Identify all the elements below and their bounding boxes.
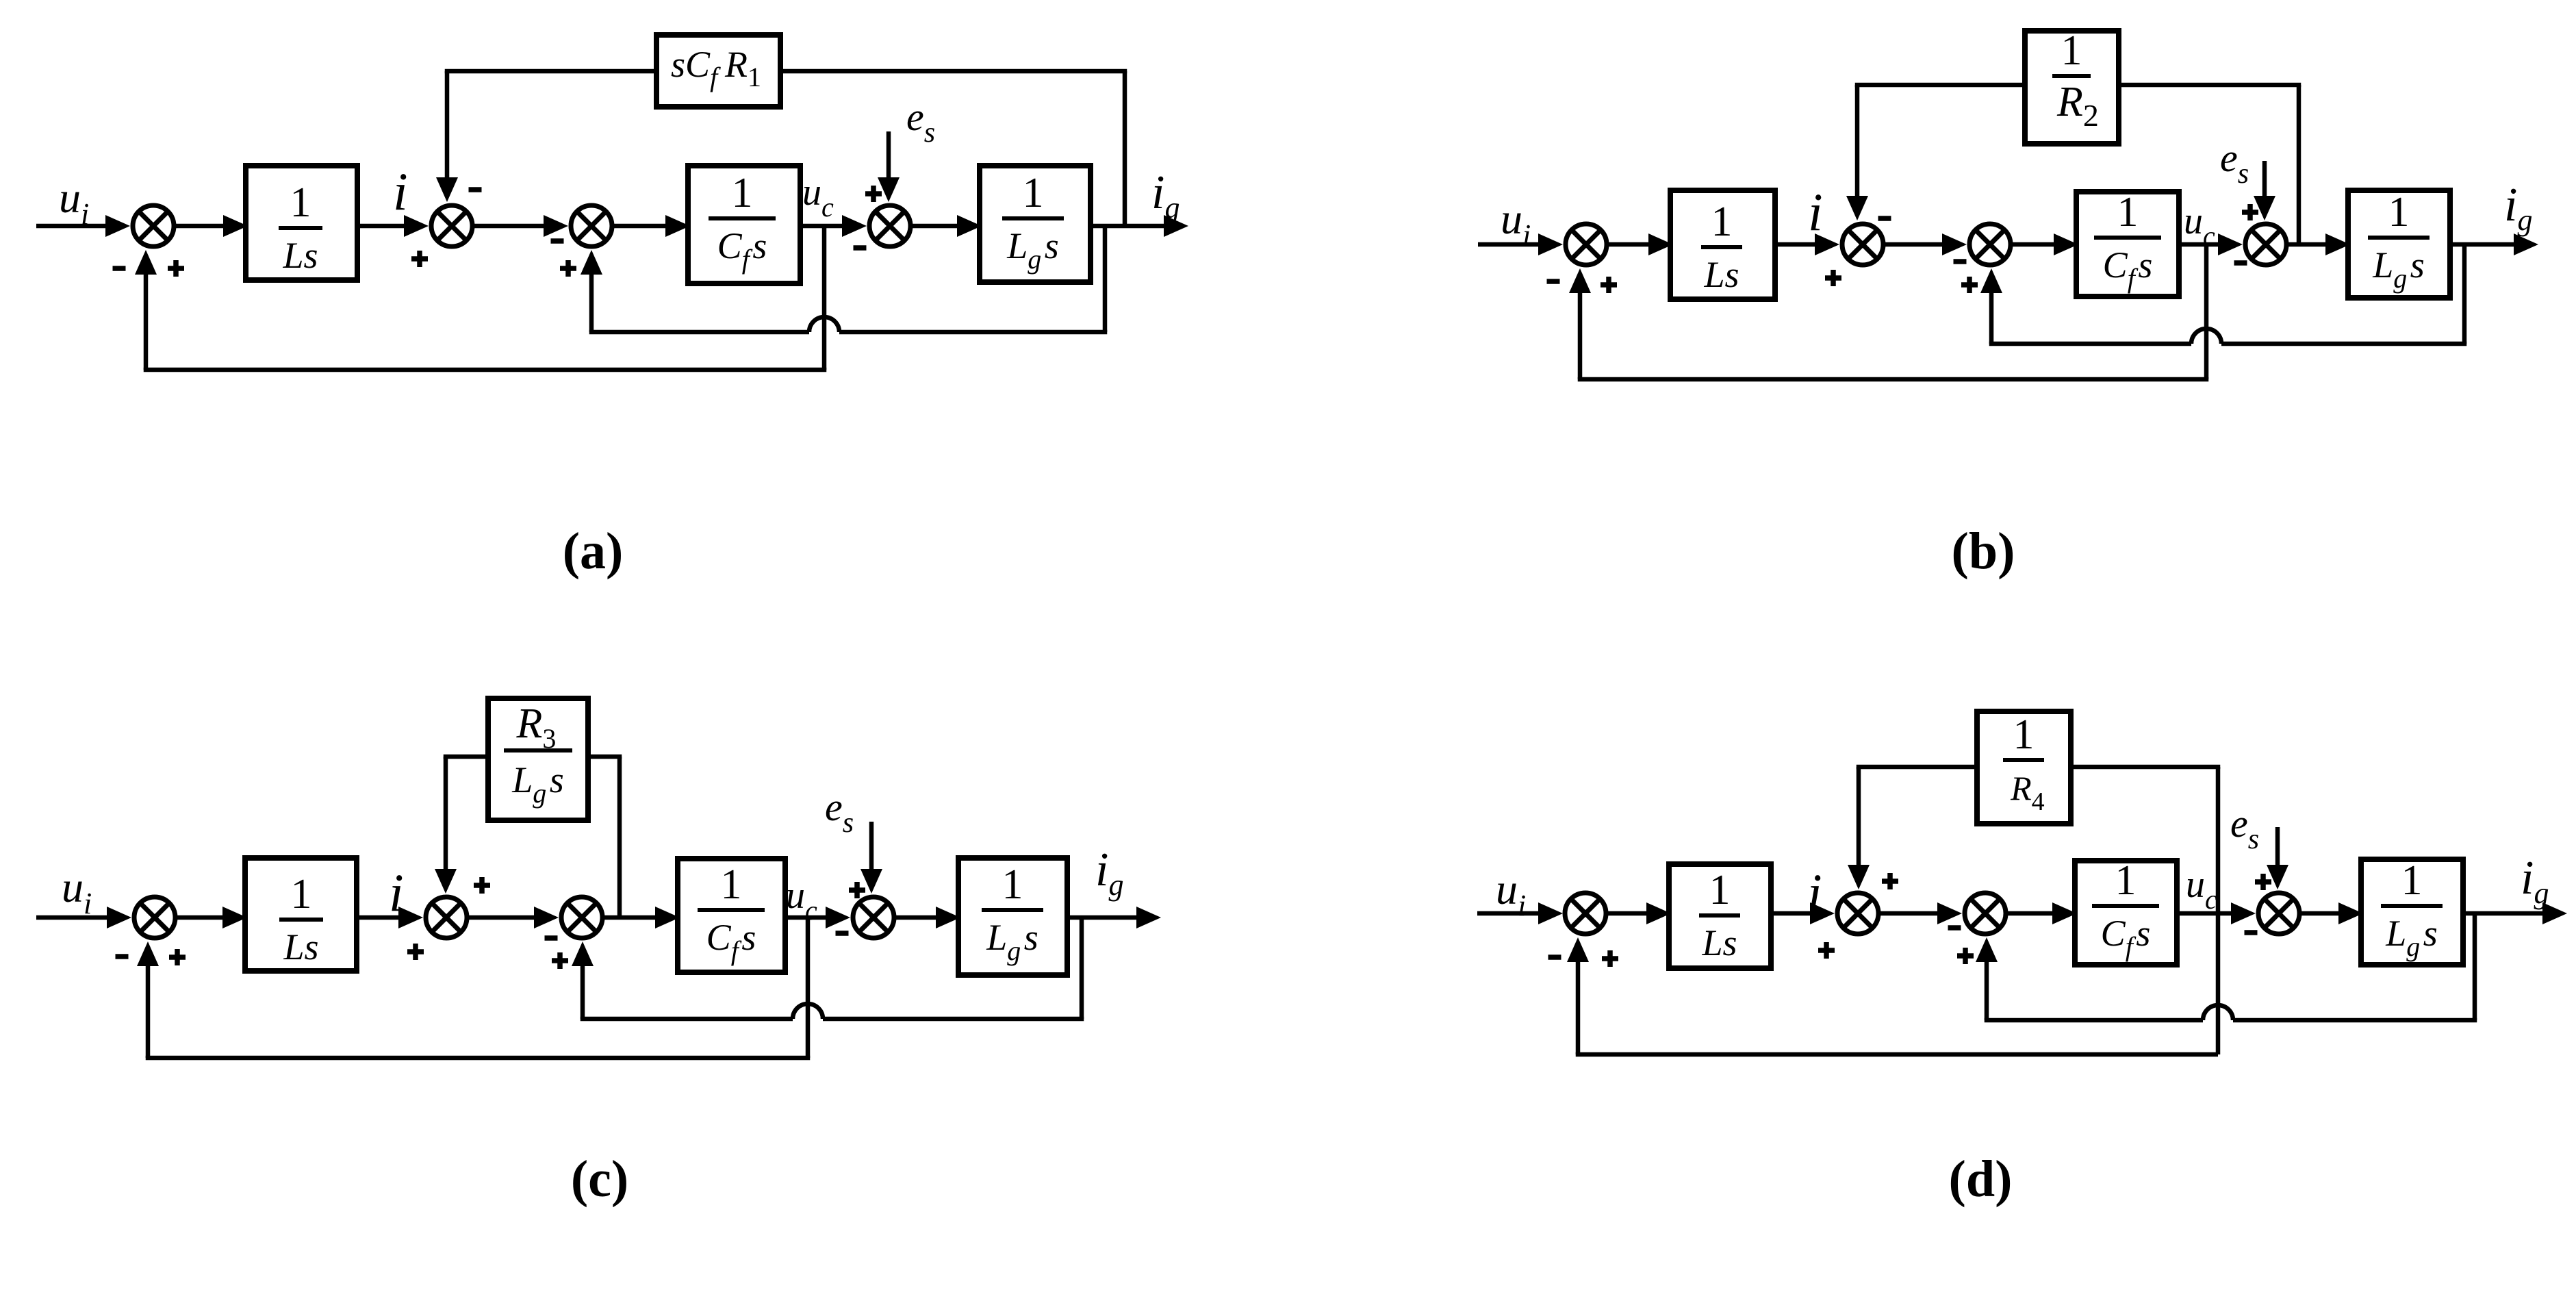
- wire: input line into summing junction S1d: [1477, 911, 1542, 916]
- sign + at S1c lower-right: [169, 949, 186, 965]
- wire: S1c to block 1/Ls: [175, 915, 227, 920]
- wire: S1d to block 1/Ls: [1606, 911, 1650, 916]
- svg-text:i: i: [1808, 182, 1823, 242]
- sign - at S3a left: [551, 238, 564, 244]
- svg-text:Ls: Ls: [282, 235, 318, 276]
- wire: S2c to summing junction S3c: [467, 915, 538, 920]
- summing junction S3b: [1969, 224, 2011, 265]
- wire: R3/Lgs block down into S2c with arrow: [444, 755, 488, 759]
- wire: outer feedback rise into S1d: [1576, 958, 1581, 1054]
- svg-text:1: 1: [1709, 867, 1731, 913]
- summing junction S4c: [853, 897, 894, 938]
- summing junction S3c: [561, 897, 602, 938]
- wire: S1b to block 1/Ls: [1607, 242, 1653, 247]
- svg-text:(d): (d): [1949, 1150, 2013, 1208]
- sign + at S3a lower-left: [560, 260, 576, 277]
- wire: block 1/Cfs to summing junction S4a: [800, 224, 846, 229]
- wire: inner feedback rise into S3c: [581, 962, 585, 1019]
- summing junction S4d: [2258, 893, 2299, 934]
- svg-text:Ls: Ls: [283, 926, 318, 967]
- block 1/Cfs (d) value label: [2092, 857, 2159, 962]
- block R3/Lgs (c) value label: [504, 700, 572, 809]
- svg-text:1: 1: [721, 861, 742, 908]
- wire: outer feedback rise into S1b: [1578, 289, 1583, 379]
- svg-text:i: i: [393, 162, 408, 221]
- svg-text:Ls: Ls: [1703, 254, 1739, 295]
- sign + at S4b upper-left: [2242, 204, 2258, 220]
- wire: u_c tap drop for outer loop (a): [822, 226, 827, 370]
- sign - at S3d left: [1948, 925, 1961, 931]
- wire: inner feedback horizontal with hop over u_c tap (c): [581, 1017, 793, 1022]
- svg-text:1: 1: [2115, 857, 2137, 904]
- wire: block 1/Ls to summing junction S2d: [1771, 911, 1814, 916]
- block 1/Cfs (c) value label: [698, 861, 765, 966]
- sign - at S3b left: [1954, 259, 1967, 264]
- summing junction S3a: [571, 205, 612, 246]
- wire: e_s drop arrow into S4d: [2275, 827, 2280, 869]
- wire: S4b to block 1/Lg s: [2286, 242, 2330, 247]
- wire: output line with i_g arrow (c): [1067, 915, 1140, 920]
- sign + at S2b lower-left: [1825, 270, 1841, 286]
- wire: S2b to summing junction S3b: [1883, 242, 1946, 247]
- sign + at S2c lower-left: [407, 944, 424, 960]
- wire: e_s drop arrow into S4a: [887, 131, 891, 181]
- wire: 1/R2 block down into S2b with arrow: [1855, 83, 2025, 88]
- svg-text:1: 1: [2117, 189, 2139, 236]
- wire: S4b output riser up to 1/R2 block (b): [2297, 85, 2301, 244]
- wire: inner feedback drop from i_g node (c): [1080, 918, 1084, 1019]
- wire: outer feedback horizontal (a): [144, 368, 827, 372]
- block 1/Cfs (d): [2075, 861, 2177, 965]
- block 1/Ls (d): [1669, 864, 1771, 968]
- wire: output line with i_g arrow (b): [2450, 242, 2518, 247]
- sign + at S4d upper-left: [2255, 874, 2271, 890]
- wire: S1a to block 1/Ls: [174, 224, 227, 229]
- svg-text:1: 1: [1711, 199, 1733, 245]
- wire: block 1/Ls to summing junction S2c: [357, 915, 403, 920]
- sign + at S3b lower-left: [1961, 277, 1978, 293]
- wire: i_g node riser up to sCfR1 block (a): [1123, 71, 1127, 226]
- wire: input line into summing junction S1b: [1478, 242, 1542, 247]
- sign + at S4c upper-left: [849, 882, 865, 898]
- svg-text:1: 1: [291, 871, 312, 918]
- sign - at S4b lower-left: [2234, 260, 2247, 266]
- wire: inner feedback rise into S3d: [1985, 958, 1989, 1020]
- summing junction S2c: [426, 897, 467, 938]
- svg-text:1: 1: [732, 170, 753, 216]
- sign - at S2a upper-right: [469, 187, 482, 192]
- wire: S2d to summing junction S3d: [1878, 911, 1941, 916]
- wire: inner feedback drop from i_g node (d): [2473, 913, 2477, 1020]
- sign + at S1d lower-right: [1602, 950, 1618, 967]
- summing junction S3d: [1965, 893, 2006, 934]
- wire: input line into summing junction S1c: [36, 915, 111, 920]
- block 1/Ls (c) value label: [279, 871, 323, 967]
- block 1/Lgs (d): [2361, 859, 2463, 965]
- svg-text:(c): (c): [571, 1150, 628, 1208]
- block 1/Ls (a): [246, 166, 357, 280]
- block 1/Lgs (c) value label: [982, 861, 1043, 966]
- wire: S4a to block 1/Lg s: [910, 224, 961, 229]
- feedback block R3/Lgs (c): [488, 698, 588, 820]
- wire: inner feedback horizontal with hop over u_c tap (a): [589, 330, 809, 335]
- feedback block 1/R2 (b): [2025, 31, 2119, 144]
- wire: outer feedback horizontal (d): [1576, 1052, 2218, 1057]
- wire: inner feedback rise into S3a: [589, 270, 594, 332]
- wire: 1/R4 block down into S2d with arrow: [1857, 765, 1977, 770]
- sign + at S3d lower-left: [1957, 948, 1974, 964]
- wire: e_s drop arrow into S4c: [869, 822, 874, 873]
- block 1/Lgs (a) value label: [1002, 170, 1064, 275]
- svg-text:1: 1: [290, 179, 311, 226]
- sign - at S4d lower-left: [2245, 930, 2258, 935]
- wire: S3a to block 1/Cf s: [612, 224, 669, 229]
- wire: S3c to block 1/Cf s: [602, 915, 659, 920]
- wire: S2a to summing junction S3a: [472, 224, 548, 229]
- sign - at S1c lower-left: [116, 954, 129, 959]
- block 1/Lgs (a): [980, 166, 1091, 282]
- summing junction S2b: [1842, 224, 1883, 265]
- wire: block 1/Cfs to summing junction S4d: [2177, 911, 2235, 916]
- wire: S3b to block 1/Cf s: [2011, 242, 2058, 247]
- wire: S4c to block 1/Lg s: [894, 915, 940, 920]
- block 1/Ls (b): [1670, 190, 1775, 299]
- svg-text:(a): (a): [563, 522, 624, 580]
- wire: S4d to block 1/Lg s: [2299, 911, 2343, 916]
- wire: S3c output riser up to R3/Lgs block (c): [617, 757, 622, 918]
- wire: u_c tap drop for outer loop (c): [806, 918, 811, 1058]
- svg-text:(b): (b): [1952, 522, 2015, 580]
- svg-text:1: 1: [1023, 170, 1044, 216]
- feedback block 1/R4 (d): [1977, 711, 2071, 824]
- wire: inner feedback horizontal with hop over u_c riser (d): [1985, 1018, 2203, 1023]
- sign - at S3c left: [545, 935, 558, 941]
- wire: inner feedback drop from i_g node (b): [2462, 244, 2467, 344]
- wire: outer feedback horizontal (b): [1578, 377, 2209, 382]
- sign + at S3c lower-left: [552, 952, 568, 969]
- sign + at S2a lower-left: [411, 251, 428, 267]
- wire: block 1/Cfs to summing junction S4c: [785, 915, 830, 920]
- sign - at S4a lower-left: [854, 245, 867, 251]
- sign - at S1d lower-left: [1548, 954, 1561, 960]
- block 1/Ls (c): [245, 858, 357, 971]
- wire: inner feedback drop from i_g node (a): [1103, 226, 1108, 332]
- wire: u_c tap riser up to 1/R4 block and down to outer loop (d): [2216, 767, 2221, 1054]
- wire: sCfR1 block down into S2a with arrow: [445, 69, 656, 74]
- block 1/Cfs (a): [688, 166, 800, 283]
- block 1/Cfs (b): [2076, 192, 2179, 296]
- summing junction S1c: [134, 897, 175, 938]
- block 1/R2 (b) value label: [2052, 27, 2102, 133]
- sign - at S2b upper-right: [1878, 216, 1891, 221]
- summing junction S1b: [1566, 224, 1607, 265]
- sign - at S1b lower-left: [1547, 279, 1560, 284]
- summing junction S1d: [1565, 893, 1606, 934]
- svg-text:1: 1: [1002, 861, 1023, 908]
- sign + at S1b lower-right: [1601, 277, 1617, 293]
- wire: block 1/Cfs to summing junction S4b: [2179, 242, 2222, 247]
- wire: output line with i_g arrow (d): [2463, 911, 2547, 916]
- sign + at S4a upper-left: [865, 186, 882, 202]
- block 1/R4 (d) value label: [2003, 711, 2048, 816]
- sign + at S2d lower-left: [1818, 942, 1835, 959]
- wire: outer feedback rise into S1c: [146, 962, 151, 1058]
- wire: block 1/Ls to summing junction S2b: [1775, 242, 1819, 247]
- block 1/Lgs (b): [2348, 190, 2450, 298]
- wire: e_s drop arrow into S4b: [2262, 161, 2267, 200]
- sign - at S1a lower-left: [113, 266, 126, 271]
- wire: S3d to block 1/Cf s: [2006, 911, 2056, 916]
- summing junction S4b: [2245, 224, 2286, 265]
- sign - at S4c lower-left: [836, 931, 849, 936]
- block 1/Lgs (c): [958, 858, 1067, 975]
- summing junction S2d: [1837, 893, 1878, 934]
- svg-text:1: 1: [2388, 189, 2410, 236]
- wire: output line with i_g arrow (a): [1091, 224, 1168, 229]
- block 1/Lgs (d) value label: [2381, 857, 2443, 962]
- summing junction S4a: [869, 205, 910, 246]
- sign + at S1a lower-right: [168, 260, 184, 277]
- block 1/Cfs (b) value label: [2094, 189, 2161, 294]
- svg-text:1: 1: [2401, 857, 2423, 904]
- wire: input line into summing junction S1a: [36, 224, 110, 229]
- wire: u_c tap drop for outer loop (b): [2204, 244, 2209, 379]
- svg-text:Ls: Ls: [1701, 922, 1737, 963]
- summing junction S1a: [133, 205, 174, 246]
- wire: outer feedback horizontal (c): [146, 1056, 811, 1061]
- block 1/Cfs (c): [678, 859, 785, 972]
- svg-text:1: 1: [2013, 711, 2035, 758]
- sign + at S2d upper-right: [1882, 873, 1898, 889]
- wire: inner feedback rise into S3b: [1989, 289, 1994, 344]
- wire: outer feedback rise into S1a: [144, 270, 149, 370]
- feedback block sCfR1 (a): [656, 35, 780, 107]
- block 1/Ls (b) value label: [1701, 199, 1742, 295]
- svg-text:1: 1: [2061, 27, 2082, 74]
- block 1/Ls (a) value label: [279, 179, 322, 276]
- summing junction S2a: [431, 205, 472, 246]
- block 1/Ls (d) value label: [1699, 867, 1740, 963]
- wire: block 1/Ls to summing junction S2a: [357, 224, 408, 229]
- block 1/Cfs (a) value label: [709, 170, 776, 275]
- sign + at S2c upper-right: [474, 877, 490, 894]
- wire: inner feedback horizontal with hop over u_c tap (b): [1989, 342, 2191, 346]
- block 1/Lgs (b) value label: [2368, 189, 2430, 294]
